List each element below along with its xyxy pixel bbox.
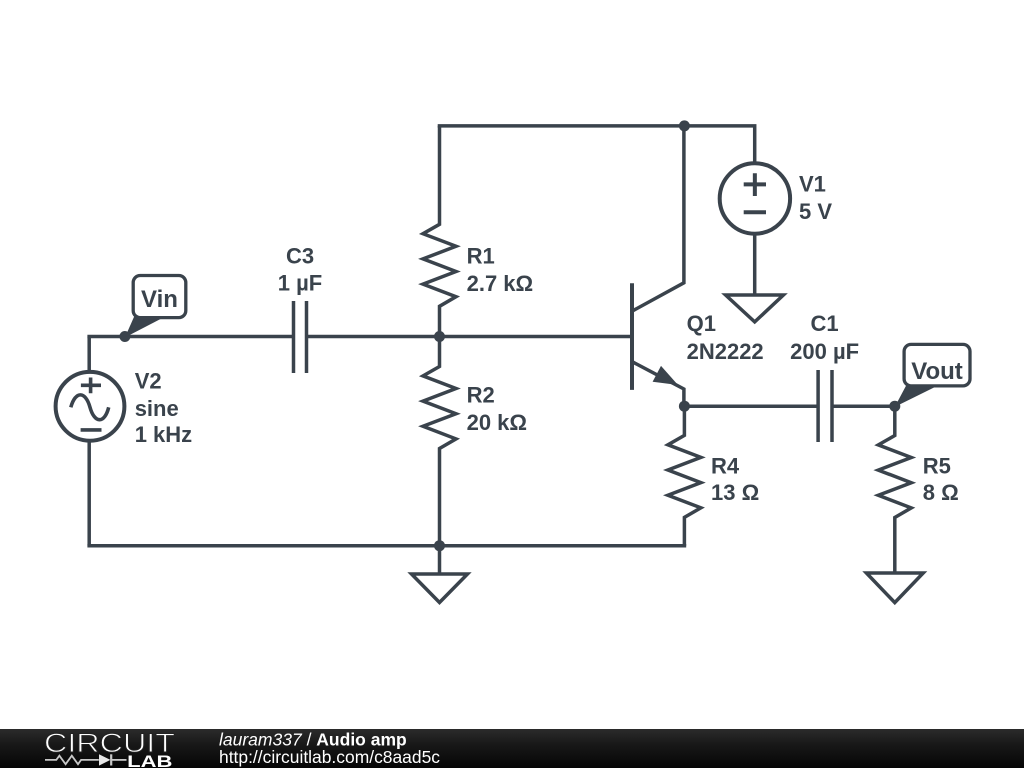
label V1 5 V	[799, 172, 832, 225]
svg-text:13 Ω: 13 Ω	[711, 480, 759, 505]
svg-text:R1: R1	[467, 244, 495, 269]
svg-text:R5: R5	[923, 454, 951, 479]
wire emitter node to C1	[684, 404, 818, 408]
label Q1 2N2222	[687, 311, 764, 364]
resistor R2	[423, 337, 456, 546]
label V2 sine 1 kHz	[135, 369, 192, 448]
wire ground stem mid	[438, 546, 442, 574]
wire mid rail right segment (C3 to Q1 base)	[307, 335, 631, 339]
svg-text:200 µF: 200 µF	[790, 339, 859, 364]
net flag Vin	[125, 276, 186, 338]
svg-text:R2: R2	[467, 383, 495, 408]
ground below V1	[726, 295, 784, 322]
voltage source V2 (sine)	[56, 372, 125, 441]
label C3 1 µF	[278, 244, 322, 296]
junction dot Vout node	[889, 401, 900, 412]
svg-text:5 V: 5 V	[799, 199, 832, 224]
CircuitLab logo resistor-diode glyph	[45, 754, 127, 765]
capacitor C3	[294, 301, 307, 373]
svg-text:C3: C3	[286, 244, 314, 269]
wire bottom rail	[87, 544, 686, 548]
footer bar	[0, 729, 1024, 768]
ground below R5	[866, 573, 923, 603]
svg-text:sine: sine	[135, 396, 179, 421]
svg-text:Vout: Vout	[911, 358, 963, 385]
svg-text:1 µF: 1 µF	[278, 271, 322, 296]
ground below bottom rail	[412, 574, 468, 603]
svg-text:2.7 kΩ: 2.7 kΩ	[467, 271, 534, 296]
svg-text:8 Ω: 8 Ω	[923, 480, 959, 505]
net flag Vout	[895, 344, 970, 407]
resistor R4	[668, 406, 701, 546]
svg-text:V2: V2	[135, 369, 162, 394]
svg-text:20 kΩ: 20 kΩ	[467, 410, 527, 435]
junction dot bottom rail ground	[434, 540, 445, 551]
svg-text:http://circuitlab.com/c8aad5c: http://circuitlab.com/c8aad5c	[219, 747, 440, 767]
label R4 13 Ω	[711, 454, 759, 506]
junction dot top rail / collector	[679, 120, 690, 131]
label R2 20 kΩ	[467, 383, 527, 436]
svg-text:Vin: Vin	[141, 286, 178, 313]
label R1 2.7 kΩ	[467, 244, 534, 297]
svg-text:LAB: LAB	[127, 752, 172, 768]
svg-text:Q1: Q1	[687, 311, 716, 336]
wire top rail from R1 top to V1	[438, 126, 755, 164]
svg-text:2N2222: 2N2222	[687, 339, 764, 364]
transistor Q1 2N2222	[632, 126, 684, 406]
svg-text:1 kHz: 1 kHz	[135, 422, 192, 447]
svg-text:R4: R4	[711, 454, 740, 479]
capacitor C1	[818, 370, 832, 442]
junction dot emitter node	[679, 401, 690, 412]
wire V2 bottom to bottom rail	[87, 441, 91, 546]
junction dot mid rail / R1 R2	[434, 331, 445, 342]
svg-text:V1: V1	[799, 172, 826, 197]
wire mid rail left segment (V2 to C3)	[87, 335, 293, 339]
svg-text:C1: C1	[811, 311, 839, 336]
voltage source V1	[720, 163, 790, 233]
junction dot Vin tap	[119, 331, 130, 342]
wire C1 to R5 node	[832, 404, 895, 408]
resistor R5	[878, 406, 911, 573]
wire V1 bottom to ground	[753, 233, 757, 296]
wire V2 top lead	[87, 337, 91, 373]
label C1 200 µF	[790, 311, 859, 364]
label R5 8 Ω	[923, 454, 959, 506]
resistor R1	[423, 126, 456, 337]
